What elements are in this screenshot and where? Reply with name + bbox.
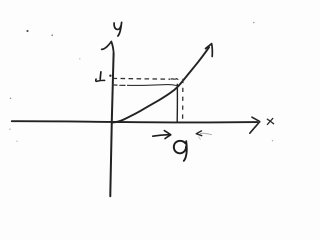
scan specks bbox=[26, 30, 28, 32]
small left arrow below axis (right of a) bbox=[196, 131, 202, 136]
ink blob on y-axis bbox=[109, 75, 111, 77]
vertical solid line at x=a bbox=[176, 84, 178, 121]
y-axis arrowhead bbox=[102, 42, 112, 50]
small right arrow below axis bbox=[153, 135, 169, 137]
label y bbox=[114, 23, 121, 29]
label x bbox=[267, 119, 273, 124]
curve f(x) bbox=[112, 47, 209, 122]
x-axis arrowhead bbox=[252, 117, 260, 121]
dashed horizontal upper (y = L) bbox=[113, 77, 171, 80]
x-axis bbox=[12, 121, 257, 122]
lower horizontal thin line bbox=[113, 84, 117, 86]
y-axis bbox=[110, 54, 113, 197]
curve arrowhead bbox=[206, 44, 212, 49]
vertical dotted line bbox=[182, 79, 184, 122]
label a bbox=[174, 141, 186, 153]
label L bbox=[99, 72, 102, 79]
